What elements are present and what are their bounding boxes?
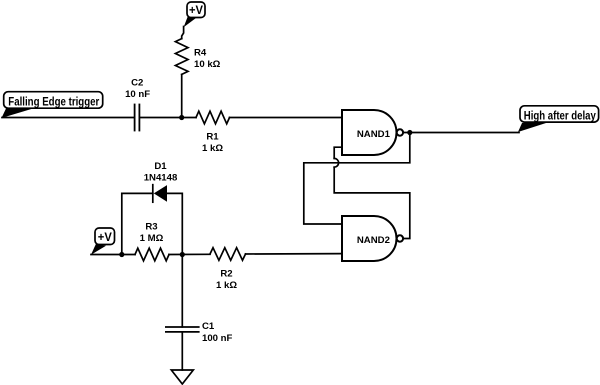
svg-text:R2: R2 xyxy=(220,269,232,280)
NAND gate NAND1 xyxy=(342,110,403,155)
wire: R4 to main wire xyxy=(181,74,183,117)
svg-text:R4: R4 xyxy=(194,47,207,58)
wire: NAND2 output up-left xyxy=(334,167,410,238)
capacitor C1 xyxy=(166,327,199,332)
svg-text:10 kΩ: 10 kΩ xyxy=(194,59,221,70)
resistor R3 xyxy=(135,248,169,261)
svg-text:1 MΩ: 1 MΩ xyxy=(140,233,164,244)
wire: C2 right plate to R1 xyxy=(139,117,196,119)
svg-text:D1: D1 xyxy=(154,161,167,172)
wire hop over feedback wire xyxy=(334,158,338,167)
svg-text:NAND1: NAND1 xyxy=(357,129,391,140)
resistor R2 xyxy=(210,248,246,261)
wire: diode branch left leg xyxy=(122,193,153,254)
svg-text:1 kΩ: 1 kΩ xyxy=(216,280,237,291)
node: +V/R3/D1 junction xyxy=(119,252,124,257)
label: Falling Edge trigger callout xyxy=(2,92,103,118)
wire: R1 to NAND1 top input xyxy=(230,117,343,119)
wire: R3 to node xyxy=(169,253,210,255)
node: NAND1 output junction xyxy=(407,130,412,135)
resistor R4 xyxy=(175,39,188,75)
node: R3/R2/D1/C1 junction xyxy=(180,252,185,257)
svg-text:R3: R3 xyxy=(145,221,157,232)
svg-text:+V: +V xyxy=(98,230,112,244)
wire: +V to R3 xyxy=(91,254,135,256)
svg-text:10 nF: 10 nF xyxy=(125,89,150,100)
diode D1 xyxy=(153,185,167,203)
label: High after delay callout xyxy=(518,106,599,132)
ground xyxy=(171,370,193,384)
wire: input net from trigger to C2 left plate xyxy=(2,117,135,119)
capacitor C2 xyxy=(135,105,140,131)
wire: R2 to NAND2 bottom input xyxy=(246,253,343,255)
NAND gate NAND2 xyxy=(342,216,403,261)
svg-text:+V: +V xyxy=(189,3,203,17)
svg-text:C2: C2 xyxy=(131,77,143,88)
svg-text:Falling Edge trigger: Falling Edge trigger xyxy=(8,95,99,109)
power +V (bottom) pointer tail xyxy=(91,244,106,255)
power +V (bottom) box xyxy=(95,228,115,245)
wire: diode branch right leg xyxy=(167,193,182,254)
wire: +V to R4 xyxy=(182,27,184,39)
svg-text:100 nF: 100 nF xyxy=(202,333,233,344)
wire: node to C1 xyxy=(181,255,183,327)
wire: C1 to ground xyxy=(181,332,183,370)
svg-text:1 kΩ: 1 kΩ xyxy=(202,143,223,154)
svg-text:C1: C1 xyxy=(202,321,215,332)
wire: hop to NAND1 bottom input xyxy=(334,147,342,158)
power +V (top) box xyxy=(187,2,205,18)
svg-text:R1: R1 xyxy=(206,131,219,142)
svg-text:1N4148: 1N4148 xyxy=(144,173,178,184)
resistor R1 xyxy=(196,111,230,124)
wire: NAND1 output feedback down-left to NAND2 top input xyxy=(304,133,410,225)
svg-text:NAND2: NAND2 xyxy=(357,235,390,246)
svg-text:High after delay: High after delay xyxy=(524,109,596,123)
node: C2/R4/R1 junction xyxy=(179,115,184,120)
wire: NAND1 output to label xyxy=(403,132,519,134)
power +V (top) pointer tail xyxy=(184,15,198,28)
